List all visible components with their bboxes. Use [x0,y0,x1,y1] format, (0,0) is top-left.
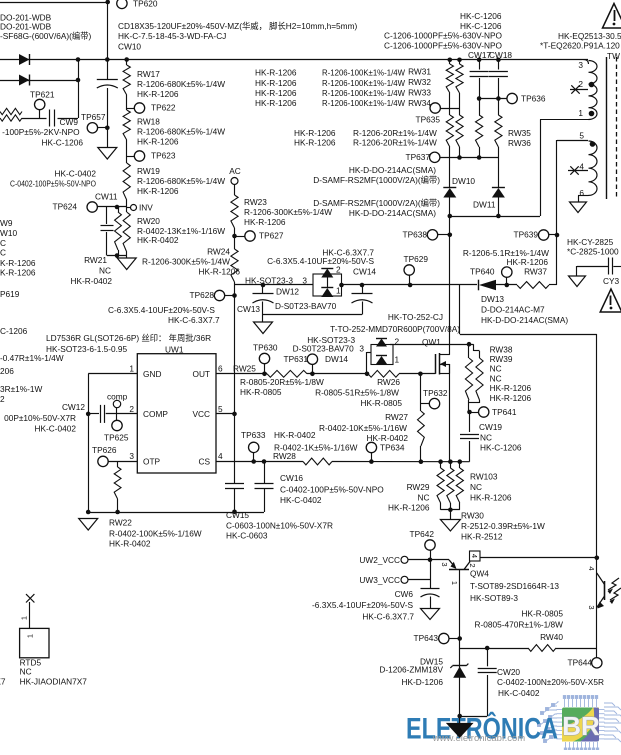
label RW103 [470,471,512,502]
svg-text:TP626: TP626 [92,445,117,455]
svg-text:TP621: TP621 [30,89,55,99]
svg-text:R-1206-20R±1%-1/4W: R-1206-20R±1%-1/4W [353,137,437,147]
svg-text:HK-JIAODIAN7X7: HK-JIAODIAN7X7 [20,677,88,687]
wire source [449,364,451,462]
transformer secondary pin5 dot [590,141,596,147]
resistor RW36 chain [495,115,502,158]
svg-text:UW1: UW1 [165,344,184,354]
diode DW11 [473,158,505,217]
testpoint TP623 [127,150,176,161]
resistor RW18 [123,110,130,140]
junction bus x78 [76,57,81,62]
label CW16 [280,473,384,505]
diode DW15 zener [450,664,468,678]
resistor RW19 [123,163,130,200]
resistor RW23 [231,195,238,228]
label pin4 [218,451,223,461]
svg-text:HK-D-DO-214AC(SMA): HK-D-DO-214AC(SMA) [349,165,436,175]
label RW30 [461,510,545,541]
svg-text:R-0805-20R±5%-1/8W: R-0805-20R±5%-1/8W [240,377,324,387]
label 1000PF b [384,40,503,50]
junction bus x459 [457,58,462,63]
wire VCC pin5 [216,413,235,415]
dual diode DW14 [371,339,393,365]
label RW18 [137,116,225,146]
wire gnd rail x88 [88,374,90,512]
svg-text:TP657: TP657 [81,112,106,122]
label RW19 [137,166,225,196]
label RW31 [408,66,431,76]
svg-text:HK-R-0402: HK-R-0402 [70,276,112,286]
label pin COMP [143,409,168,419]
svg-text:4: 4 [470,554,479,558]
testpoint TP622 [127,102,176,113]
label pin CS [198,456,210,466]
svg-text:R-2512-0.39R±5%-1W: R-2512-0.39R±5%-1W [461,521,545,531]
label 047R cut [0,353,64,363]
svg-text:R-0402-100K±5%-1/16W: R-0402-100K±5%-1/16W [109,528,202,538]
label CW17 [468,50,491,60]
junction rail d [458,459,463,464]
svg-text:TP636: TP636 [521,93,546,103]
svg-text:HK-C-0402: HK-C-0402 [34,423,76,433]
label RW37 value [463,248,549,276]
watermark BR text [562,711,600,741]
label RW38 block [490,344,532,403]
label P619 [0,289,20,299]
testpoint TP636 [507,93,546,103]
label RW28 part [274,430,316,440]
label RW27 [319,412,408,443]
svg-text:1: 1 [578,108,583,118]
svg-text:HK-R-0402: HK-R-0402 [274,430,316,440]
svg-text:TP637: TP637 [406,152,431,162]
label DO-201-WDB 1 [0,12,52,22]
testpoint TP634 [366,442,405,461]
label RW32 [408,77,431,87]
label SF68G [0,31,92,41]
svg-text:TP642: TP642 [410,529,435,539]
svg-text:HK-C-1206: HK-C-1206 [480,442,522,452]
junction bus x107 [105,57,110,62]
svg-text:D-SAMF-RS2MF(1000V/2A)(编带): D-SAMF-RS2MF(1000V/2A)(编带) [313,198,440,208]
resistor RW27 [418,411,425,446]
svg-text:UW3_VCC: UW3_VCC [359,575,400,585]
svg-text:00P±10%-50V-X7R: 00P±10%-50V-X7R [4,413,76,423]
testpoint TP637 [406,152,440,163]
label RW25 [233,363,256,373]
junction TP639 [555,233,560,238]
label HK-C-0402 left [54,168,96,178]
svg-text:C-0603-100N±10%-50V-X7R: C-0603-100N±10%-50V-X7R [226,520,333,530]
wire INV row [98,206,127,208]
label DW14 sot [307,335,355,345]
svg-text:RW26: RW26 [377,377,400,387]
svg-text:CW15: CW15 [226,510,249,520]
svg-text:C-0402-100N±20%-50V-X5R: C-0402-100N±20%-50V-X5R [497,677,604,687]
watermark chip purple [580,708,599,742]
diode D1 [19,54,30,65]
svg-text:HK-R-1206: HK-R-1206 [388,502,430,512]
svg-text:R-0805-51R±5%-1/8W: R-0805-51R±5%-1/8W [315,387,399,397]
watermark circuit traces [538,696,621,751]
wire OUT [216,373,436,375]
junction rail c [448,459,453,464]
svg-text:TP629: TP629 [404,254,429,264]
resistor RW22 [114,461,121,512]
svg-text:TP632: TP632 [423,388,448,398]
wire COMP pin2 [88,413,137,415]
resistor RW38 [465,344,472,400]
wire row2 [0,80,78,82]
svg-text:TP635: TP635 [416,114,441,124]
svg-text:comp: comp [107,391,128,401]
label RW36 [508,138,531,148]
label C-0402 left [10,178,96,188]
svg-text:NC: NC [470,482,482,492]
label HK-CY-2825 [567,237,614,247]
svg-text:TP638: TP638 [403,229,428,239]
testpoint TP643 [414,633,460,644]
junction top [105,0,110,4]
svg-text:RW39: RW39 [490,354,513,364]
testpoint TP629 [404,254,429,285]
junction rail x234 [232,510,237,515]
svg-text:HK-R-1206: HK-R-1206 [490,393,532,403]
junction CW13 tap [261,283,266,288]
label DW12 [276,286,299,296]
label DWrow4 [349,208,436,218]
svg-text:RW34: RW34 [408,98,431,108]
svg-text:HK-SOT23-3: HK-SOT23-3 [307,335,355,345]
wire CW6 branch [430,560,432,589]
warning triangle mid [600,289,621,312]
svg-text:HK-R-0402: HK-R-0402 [137,235,179,245]
wire main bus [0,59,588,61]
junction drain [467,342,472,347]
svg-text:K-R-1206: K-R-1206 [0,258,36,268]
label RW24 [142,246,240,276]
dual diode DW12 [313,269,342,298]
svg-text:TP622: TP622 [151,102,176,112]
capacitor CW15 [225,484,249,520]
resistor RW29 [437,462,444,510]
svg-text:OUT: OUT [192,369,210,379]
svg-text:HK-C-1206: HK-C-1206 [460,11,502,21]
svg-text:QW4: QW4 [470,568,489,578]
label 100K row2 [322,78,405,88]
wire x78 down [78,60,80,119]
transformer primary coil [589,61,598,120]
junction TP628 [232,293,237,298]
label DW14 pin1 [395,354,400,364]
svg-text:2: 2 [578,79,583,89]
label CW13 value [108,305,215,315]
svg-text:HK-C-0402: HK-C-0402 [280,495,322,505]
svg-text:206: 206 [0,366,14,376]
resistor RW39 [469,344,483,403]
capacitor CW20 [478,648,497,716]
label pin2 [129,404,134,414]
svg-text:RW23: RW23 [244,197,267,207]
wire NC join [441,509,460,511]
wire chain x128 [126,60,128,257]
wire bus corner [583,60,589,65]
label CW12 [62,402,85,412]
resistor RW103b [456,462,463,510]
label HK-SOT23-6 [46,344,128,354]
label DW13 [481,294,568,325]
label RW26 [315,377,402,408]
label CW14 value [267,256,374,266]
capacitor CW12 [101,405,105,423]
capacitor CW10 [97,60,118,148]
svg-text:RW32: RW32 [408,77,431,87]
label RTD5 pin1 inner [26,634,35,638]
svg-text:RW27: RW27 [385,412,408,422]
label pin1 [129,363,134,373]
svg-text:HK-R-0805: HK-R-0805 [521,608,563,618]
label RW21 [70,255,112,286]
junction CW20 tap [485,646,490,651]
wire UW3 [408,579,430,581]
wire gnd stub bottom [459,716,461,724]
svg-text:NC: NC [99,265,111,275]
label RW40 part [475,608,564,642]
label xfmr pin6 [579,188,584,198]
svg-text:RW29: RW29 [407,482,430,492]
svg-text:DW14: DW14 [325,354,348,364]
transformer pin2 tap [570,85,588,93]
label RW35 [508,128,531,138]
svg-text:3: 3 [359,343,364,353]
label opto pin3 [587,605,596,609]
svg-text:R-1206-680K±5%-1/4W: R-1206-680K±5%-1/4W [137,126,225,136]
label KR1206a [0,258,36,268]
junction CW14 [360,283,365,288]
label C2 [0,247,6,257]
svg-text:RW18: RW18 [137,116,160,126]
label C-2825 [567,246,619,256]
svg-text:C-1206-1000PF±5%-630V-NPO: C-1206-1000PF±5%-630V-NPO [384,40,503,50]
junction TP641 [467,410,472,415]
label pin3 [129,451,134,461]
label QW4 [470,568,559,603]
svg-text:CD18X35-120UF±20%-450V-MZ(华威，: CD18X35-120UF±20%-450V-MZ(华威， 脚长H2=10mm,… [118,21,357,31]
junction NC join [448,508,453,513]
wire out L [460,285,597,658]
node comp [107,391,128,414]
label CW6 part [362,611,414,621]
svg-text:TP644: TP644 [568,658,593,668]
wire CS rail [216,461,470,463]
svg-text:DW11: DW11 [473,199,496,209]
svg-text:www.eletronicabr.com: www.eletronicabr.com [432,733,525,744]
ground CW6 [421,609,440,620]
junction DW14 pin3 [365,372,370,377]
capacitor CW11 [101,207,114,256]
svg-text:T-SOT89-2SD1664R-13: T-SOT89-2SD1664R-13 [470,581,559,591]
junction CW12 left [86,412,91,417]
junction TP634 [369,459,374,464]
svg-text:HK-D-DO-214AC(SMA): HK-D-DO-214AC(SMA) [349,208,436,218]
svg-text:CW18: CW18 [489,50,512,60]
optocoupler phototransistor [597,573,605,609]
svg-text:HK-R-1206: HK-R-1206 [255,88,297,98]
resistor RW40 [528,645,556,652]
wire xfmr primary bottom [540,119,589,121]
svg-text:AC: AC [229,166,241,176]
svg-text:HK-R-1206: HK-R-1206 [137,186,179,196]
svg-text:2: 2 [129,404,134,414]
resistor RW24 [231,249,238,282]
label xfmr part1 [558,31,621,41]
svg-text:RW31: RW31 [408,66,431,76]
svg-text:NC: NC [480,432,492,442]
wire TP636 [479,98,507,100]
label DW14 pin3 [359,343,364,353]
svg-text:-100P±5%-2KV-NPO: -100P±5%-2KV-NPO [2,127,80,137]
junction TP631 [310,372,315,377]
capacitor CW16 [255,484,274,489]
label TP657 [81,112,106,122]
label LD7536R [46,333,211,343]
svg-text:HK-SOT89-3: HK-SOT89-3 [470,593,518,603]
testpoint TP631 [284,354,318,374]
svg-text:1: 1 [26,634,35,638]
svg-text:HK-C-0402: HK-C-0402 [54,168,96,178]
wire TP637 [440,157,498,159]
diode DW13 [479,280,497,291]
transformer secondary coil [589,141,598,195]
svg-text:R-0402-10K±5%-1/16W: R-0402-10K±5%-1/16W [319,423,407,433]
capacitor CW18 [489,60,508,115]
label 1000PF a [384,30,503,40]
svg-text:DO-201-WDB: DO-201-WDB [0,21,52,31]
svg-text:C-6.3X5.4-10UF±20%-50V-S: C-6.3X5.4-10UF±20%-50V-S [267,256,374,266]
testpoint TP632 [421,388,448,409]
ground CW13 [254,322,273,334]
svg-text:TP620: TP620 [133,0,158,8]
testpoint TP635 [416,103,441,125]
svg-text:C-0402-100P±5%-50V-NPO: C-0402-100P±5%-50V-NPO [280,484,384,494]
label DW14 part [293,344,355,354]
label QW1 part2 [330,324,460,334]
svg-text:TP625: TP625 [104,432,129,442]
label CW19 [479,422,522,453]
label DW12 pin1 [336,285,341,295]
label RTD5 pin1 outer [20,616,29,620]
svg-text:5: 5 [218,404,223,414]
svg-text:LD7536R GL(SOT26-6P) 丝印： 年周批/3: LD7536R GL(SOT26-6P) 丝印： 年周批/36R [46,333,211,343]
svg-text:-6.3X5.4-10UF±20%-50V-S: -6.3X5.4-10UF±20%-50V-S [312,600,413,610]
svg-text:1: 1 [20,616,29,620]
label xfmr part2 [540,40,620,50]
svg-text:COMP: COMP [143,409,168,419]
svg-text:TP628: TP628 [190,290,215,300]
testpoint TP640 [470,266,512,285]
label DW12 pin2 [336,264,341,274]
junction bus x498 [496,58,501,63]
svg-text:R-1206-680K±5%-1/4W: R-1206-680K±5%-1/4W [137,79,225,89]
label RW28 [273,451,296,461]
testpoint TP641 [470,407,517,417]
junction TP629 [408,283,413,288]
svg-text:TP643: TP643 [414,633,439,643]
junction rail x117 [115,510,120,515]
wire GND pin1 [88,373,137,375]
label CW10 value [118,21,357,31]
junction TP636 a [477,96,482,101]
wire CW20 bottom [460,716,488,718]
svg-text:RW20: RW20 [137,216,160,226]
svg-text:HK-R-1206: HK-R-1206 [255,67,297,77]
svg-text:HK-C-7.5-18-45-3-WD-FA-CJ: HK-C-7.5-18-45-3-WD-FA-CJ [118,31,226,41]
junction rail x88 [86,510,91,515]
resistor RW25 [267,370,307,377]
testpoint TP633 [241,430,266,462]
junction DW rail b [496,214,501,219]
svg-text:3: 3 [440,562,449,566]
svg-text:1: 1 [129,363,134,373]
svg-text:HK-R-1206: HK-R-1206 [255,78,297,88]
resistor RW32 chain [456,60,463,158]
node UW3_VCC [359,575,408,585]
transistor Q2 QW4 [449,551,480,570]
junction gnd bottom [457,714,462,719]
svg-text:DW12: DW12 [276,286,299,296]
ground bottom [447,724,472,738]
label RW23 [244,197,332,227]
capacitor CW6 [421,589,440,609]
label pin OUT [192,369,210,379]
wire DW12 row left [235,284,314,286]
label CW6 value [312,600,413,610]
resistor RW17 [123,65,130,95]
svg-text:HK-D-DO-214AC(SMA): HK-D-DO-214AC(SMA) [481,315,568,325]
label QW1 part1 [388,312,443,322]
svg-text:NC: NC [20,666,32,676]
junction DW rail a [448,214,453,219]
label HK-C-1206 a [460,11,502,21]
resistor RW37 [517,282,549,289]
testpoint TP620 [117,0,158,9]
testpoint TP624 [53,201,98,212]
watermark ELETRONICA [406,712,558,746]
svg-text:R-1206-100K±1%-1/4W: R-1206-100K±1%-1/4W [322,67,405,77]
label DO-201-WDB 2 [0,21,52,31]
ground xfmr [570,202,587,213]
label 100K row4 [322,98,405,108]
svg-text:D-S0T23-BAV70: D-S0T23-BAV70 [275,301,337,311]
svg-text:RW33: RW33 [408,87,431,97]
capacitor CW17 [470,60,489,115]
wire xfmr pin5 lead [557,140,589,285]
label QW4 pin2 [468,563,477,567]
svg-text:6: 6 [579,188,584,198]
label RW20 [137,216,225,245]
svg-text:6: 6 [218,363,223,373]
junction INV row [115,205,120,210]
svg-text:HK-C-1206: HK-C-1206 [41,138,83,148]
junction QW4 collector [595,556,600,561]
label DW14 pin2 [395,336,400,346]
svg-text:VCC: VCC [192,409,210,419]
resistor RW26 [368,370,399,377]
label QW1 [422,337,441,347]
component RTD5 box [20,628,49,657]
junction bus x450 [448,58,453,63]
